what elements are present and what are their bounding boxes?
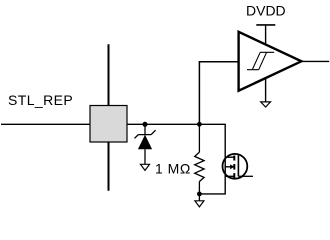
transistor Q1 NMOS in circle xyxy=(223,154,248,179)
wire MOSFET source to resistor bottom xyxy=(199,176,225,194)
wire vertical through package pin xyxy=(108,44,110,190)
wire STL_REP horizontal net xyxy=(1,123,226,125)
zener diode D1 (ESD clamp) xyxy=(135,124,156,164)
wire buffer input riser xyxy=(199,62,238,125)
node junction dot top of resistor xyxy=(197,122,202,127)
wire MOSFET drain drop xyxy=(224,124,226,158)
node junction dot at zener xyxy=(143,122,148,127)
wire buffer output xyxy=(302,60,330,62)
ground below resistor xyxy=(195,194,204,207)
power rail DVDD bar xyxy=(256,25,275,45)
ground below buffer xyxy=(261,78,271,107)
resistor R1 1 MΩ xyxy=(195,124,204,194)
wire MOSFET gate stub xyxy=(238,175,253,177)
package pin box xyxy=(90,106,127,143)
svg-text:STL_REP: STL_REP xyxy=(8,92,73,108)
svg-text:DVDD: DVDD xyxy=(246,2,286,18)
svg-text:1 MΩ: 1 MΩ xyxy=(155,161,191,177)
op-amp U1 Schmitt buffer xyxy=(239,32,302,91)
ground below zener xyxy=(141,164,150,170)
node junction dot bottom of resistor xyxy=(197,192,202,197)
